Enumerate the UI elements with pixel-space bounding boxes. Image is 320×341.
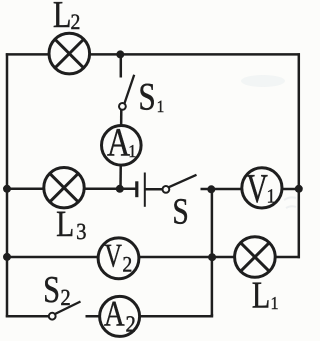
svg-text:1: 1 <box>270 293 278 313</box>
smudge artifact top right <box>241 75 285 87</box>
switch S pivot circle <box>163 186 170 193</box>
svg-text:1: 1 <box>157 97 165 116</box>
switch S lever <box>169 175 197 187</box>
svg-text:S: S <box>43 269 60 311</box>
wire S1 branch lower vertical through A1 <box>119 110 122 189</box>
wire bottom row from S2 to corner <box>86 315 214 318</box>
svg-text:L: L <box>252 275 271 317</box>
junction dot left V2 row <box>3 253 11 261</box>
svg-text:1: 1 <box>128 141 136 161</box>
wire left vertical <box>6 53 9 317</box>
wire bottom corner vertical stub <box>211 314 214 317</box>
battery: short thick plate (negative) <box>135 181 138 197</box>
junction dot middle vertical at V2/L1 row <box>208 253 216 261</box>
lamp L1 <box>235 237 276 278</box>
ammeter A1 <box>102 126 142 166</box>
label L3 <box>56 204 74 245</box>
wire top horizontal <box>6 53 300 56</box>
faint pencil marks right side <box>284 197 296 208</box>
svg-text:2: 2 <box>71 9 81 34</box>
switch S2 pivot circle <box>49 313 56 320</box>
switch S1 lever <box>125 75 135 103</box>
svg-text:V: V <box>246 165 268 211</box>
label S1 <box>138 76 155 119</box>
svg-text:A: A <box>107 120 130 165</box>
junction dot left middle row <box>3 185 11 193</box>
svg-text:2: 2 <box>126 312 136 337</box>
voltmeter V1 <box>242 168 282 208</box>
svg-text:A: A <box>104 293 125 333</box>
junction dot right of switch S <box>207 185 215 193</box>
svg-text:1: 1 <box>267 185 276 207</box>
junction dot right vertical at V1 <box>295 185 303 193</box>
wire S1 branch upper vertical <box>120 54 123 77</box>
svg-text:L: L <box>53 0 72 36</box>
svg-text:S: S <box>172 191 188 232</box>
voltmeter V2 <box>98 238 139 279</box>
svg-text:L: L <box>56 204 74 245</box>
wire middle row from switch S to right vertical <box>201 188 299 191</box>
lamp L2 <box>49 33 90 74</box>
label S <box>172 191 188 232</box>
lamp L3 <box>44 168 84 208</box>
svg-text:2: 2 <box>60 285 70 310</box>
switch S2 lever <box>55 302 80 314</box>
wire middle row between battery and switch S <box>145 188 163 191</box>
label S2 <box>43 269 60 311</box>
wire middle vertical (x=212) <box>212 189 213 315</box>
label L1 <box>252 275 271 317</box>
wire V2/L1 row horizontal <box>6 256 300 259</box>
junction dot top (S1 branch tap) <box>116 50 124 58</box>
ammeter A2 <box>100 296 140 336</box>
junction dot below A1 <box>116 185 124 193</box>
svg-text:S: S <box>138 76 155 119</box>
switch S1 pivot circle <box>119 103 126 110</box>
svg-text:V: V <box>104 238 122 274</box>
wire middle row (battery row) left segment <box>6 188 137 191</box>
label L2 <box>53 0 72 36</box>
battery: long thin plate (positive) <box>144 173 146 207</box>
svg-text:3: 3 <box>76 219 86 244</box>
wire bottom row left segment <box>6 315 49 318</box>
wire right vertical <box>298 53 301 258</box>
svg-text:2: 2 <box>122 251 132 276</box>
